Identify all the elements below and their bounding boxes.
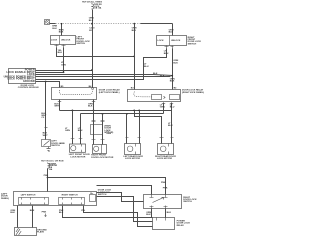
relay K1 bottom pins <box>60 100 94 111</box>
svg-text:BLK: BLK <box>59 32 64 34</box>
svg-text:C/B 15A: C/B 15A <box>94 7 102 10</box>
module U1 door lock control module box <box>9 69 36 84</box>
wire module pin1 POWER to fuse wire <box>36 70 93 72</box>
wire module pin6 ground <box>36 82 60 88</box>
wire left switch unlock output LT GRN <box>63 48 65 73</box>
wire channel nested to bottom relay <box>97 197 153 222</box>
junction on relay feed wire <box>133 56 135 58</box>
svg-text:GRN: GRN <box>65 130 70 132</box>
svg-text:BLK: BLK <box>52 28 57 30</box>
svg-text:GRN: GRN <box>106 133 111 135</box>
svg-text:LOCK: LOCK <box>157 40 164 42</box>
wire module pin4 to junction diagonal <box>36 76 171 78</box>
wire left rear motor unlock <box>126 114 128 144</box>
switch assembly small right cell <box>90 195 96 202</box>
svg-text:YEL: YEL <box>81 210 86 212</box>
wire ground branch down to jamb switch <box>45 82 47 140</box>
junction on right unlock wire <box>171 75 173 77</box>
svg-text:RIGHT SWITCH: RIGHT SWITCH <box>62 194 78 196</box>
switch S1 left front door lock switch <box>51 36 76 45</box>
svg-text:BLK: BLK <box>173 62 178 64</box>
ground symbol G252 <box>47 147 51 152</box>
switch S3 right door lock switch <box>144 195 182 209</box>
switch assembly master switch box <box>14 192 97 206</box>
svg-text:BLU: BLU <box>144 66 149 68</box>
connector ticks C pair <box>92 121 105 122</box>
svg-text:HOT IN ACC OR RUN: HOT IN ACC OR RUN <box>41 159 64 162</box>
svg-text:BLU: BLU <box>168 125 173 127</box>
node HOT AT ALL TIMES label <box>82 0 102 3</box>
wire master switch output 2 <box>32 206 34 228</box>
relay power door lock relay bottom <box>153 218 175 230</box>
pin ticks left rear motor <box>126 137 141 139</box>
wire right switch unlock output down <box>172 49 174 90</box>
motor M2 right front door lock motor <box>93 145 107 154</box>
wire right rear unlock continues from relay <box>171 111 173 144</box>
svg-text:UNLOCK: UNLOCK <box>61 40 71 42</box>
svg-text:GRN: GRN <box>61 64 66 66</box>
wire front right motor unlock from line2 <box>102 114 104 145</box>
wire master switch output 4 channel <box>84 206 153 227</box>
pin ticks left switch <box>55 45 66 48</box>
fuse GAUGES fuse <box>48 163 50 169</box>
wire bus line2 unlock <box>81 113 164 115</box>
svg-text:UNLOCK: UNLOCK <box>171 40 181 42</box>
svg-text:PNK: PNK <box>161 182 166 184</box>
wire solid bus to right switch <box>141 23 173 25</box>
wire channel upper to switch top pin <box>97 186 152 195</box>
svg-text:CONTROL MODULE: CONTROL MODULE <box>18 87 39 89</box>
wire from ground to splice bus <box>50 23 56 25</box>
svg-text:PNK: PNK <box>44 175 49 177</box>
junction dots on line2 <box>102 113 104 115</box>
svg-text:BLK: BLK <box>59 212 64 214</box>
svg-text:GRN: GRN <box>160 107 165 109</box>
svg-text:RELAY: RELAY <box>177 224 185 227</box>
pin ticks right rear motor <box>160 137 174 139</box>
wire master switch output to bottom right box <box>63 206 153 218</box>
relay K2 internal dashed element <box>134 92 152 97</box>
svg-text:BLU: BLU <box>164 53 169 55</box>
motor M4 right rear door lock motor <box>158 144 174 155</box>
wire ORN continues down to relay A <box>92 24 94 88</box>
wire PNK from fuse down <box>47 169 49 192</box>
junction splice to door lock relay feed <box>134 23 136 25</box>
switch S2 right front door lock switch <box>157 36 187 46</box>
node HOT IN ACC OR RUN label <box>41 159 64 162</box>
ground block bottom left <box>15 228 37 236</box>
switch assembly inner left contacts <box>19 198 49 205</box>
pin ticks front right motor <box>92 139 105 141</box>
pin ticks front left motor <box>71 138 83 140</box>
svg-text:BLK: BLK <box>167 212 172 214</box>
wire master switch output 1 <box>17 206 19 228</box>
svg-text:BLK: BLK <box>169 32 174 34</box>
svg-text:BLK: BLK <box>89 20 94 22</box>
wire PNK branch to right door lock switch <box>48 178 166 195</box>
relay K1 door lock relay left kick panel <box>52 88 97 100</box>
wire bus line1 lock <box>60 110 172 112</box>
svg-text:(RIGHT KICK PANEL): (RIGHT KICK PANEL) <box>182 91 204 94</box>
pin ticks right switch <box>165 46 174 49</box>
junction dots on line1 <box>72 110 74 112</box>
wire right switch lock output <box>36 49 167 80</box>
wire ORN/BLK feed down to right switch <box>172 24 174 36</box>
svg-text:BLK: BLK <box>170 81 175 83</box>
svg-text:LEFT SWITCH: LEFT SWITCH <box>21 194 36 196</box>
motor M1 left front door lock motor <box>70 144 86 152</box>
svg-text:WHT: WHT <box>43 135 49 137</box>
svg-text:BLK: BLK <box>58 52 63 54</box>
svg-text:SWITCH: SWITCH <box>51 145 60 147</box>
svg-text:LOCK MOTOR: LOCK MOTOR <box>125 158 140 160</box>
wire feed down to left switch <box>61 24 63 36</box>
junction splice at fuse wire <box>91 23 93 25</box>
ground G200 symbol top left <box>45 20 50 25</box>
wire channel from assembly to right switch <box>97 193 144 202</box>
svg-text:PNK: PNK <box>42 212 47 214</box>
svg-text:LOCK MOTOR: LOCK MOTOR <box>157 158 172 160</box>
svg-text:SWITCH: SWITCH <box>183 201 192 203</box>
label with arrow continuation <box>42 212 47 214</box>
svg-text:LOCK MOTOR: LOCK MOTOR <box>70 156 85 158</box>
wire module pin2 lock enable <box>36 72 64 74</box>
svg-text:SWITCH: SWITCH <box>76 43 85 45</box>
wire module pin3 to junction diagonal <box>36 75 173 76</box>
wire front left motor unlock <box>80 114 82 145</box>
wire right rear feed L path <box>135 111 162 144</box>
relay K1 internal dashed element <box>59 90 92 95</box>
svg-text:BLK: BLK <box>30 210 35 212</box>
svg-text:PNK: PNK <box>163 188 168 190</box>
svg-text:GROUND: GROUND <box>23 80 35 83</box>
relay K2 internal contact boxes <box>152 95 162 100</box>
svg-text:BLK: BLK <box>88 106 93 108</box>
junction PNK branch <box>47 177 49 179</box>
svg-text:30A: 30A <box>49 168 53 171</box>
svg-text:PLATE: PLATE <box>37 231 45 234</box>
svg-text:SWITCH: SWITCH <box>98 194 107 196</box>
svg-text:BLK: BLK <box>160 76 165 78</box>
circuit breaker value label <box>94 4 102 10</box>
relay K2 bottom pins <box>164 103 172 114</box>
wire dashed splice bus <box>56 23 141 25</box>
svg-text:BLK: BLK <box>146 214 151 216</box>
circuit breaker PWR DR LOCK C/B <box>91 4 93 9</box>
svg-text:BLU: BLU <box>170 107 175 109</box>
wire right switch to bottom relay <box>151 209 153 218</box>
svg-text:DOOR LOCK MOTOR: DOOR LOCK MOTOR <box>91 157 113 159</box>
motor M3 left rear door lock motor <box>125 144 141 155</box>
svg-text:LOCK: LOCK <box>51 40 58 42</box>
connector box on front right motor wires <box>91 125 103 135</box>
switch door jamb switch <box>42 140 51 147</box>
svg-text:BLU: BLU <box>78 130 83 132</box>
svg-text:SWITCH: SWITCH <box>188 43 197 45</box>
wire front right motor lock from relay A <box>93 100 95 145</box>
wire ORN from breaker down <box>92 10 94 24</box>
svg-text:PANEL): PANEL) <box>1 197 9 200</box>
wire left rear motor lock <box>139 111 141 144</box>
svg-text:BLK: BLK <box>10 212 15 214</box>
svg-text:BLK: BLK <box>153 73 158 75</box>
wire relay feed vertical ORN/BLK <box>134 24 136 90</box>
relay K2 door lock relay right kick panel <box>128 90 181 102</box>
svg-text:WHT: WHT <box>54 106 60 108</box>
svg-text:(LEFT KICK PANEL): (LEFT KICK PANEL) <box>99 91 120 94</box>
switch assembly inner right contacts <box>59 198 85 205</box>
wire left switch lock output <box>57 48 135 57</box>
wire front left motor lock <box>72 111 74 145</box>
svg-text:C2: C2 <box>41 117 45 119</box>
